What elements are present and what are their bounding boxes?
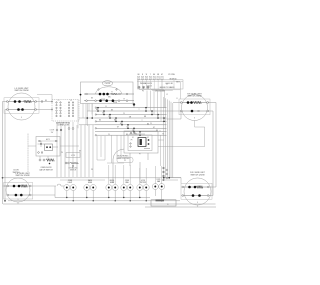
svg-text:W: W: [166, 94, 168, 96]
svg-text:-: -: [65, 110, 66, 112]
svg-text:Y: Y: [141, 120, 142, 122]
svg-text:P8: P8: [91, 169, 93, 171]
svg-text:-: -: [65, 116, 66, 118]
svg-text:BROIL: BROIL: [110, 180, 115, 182]
svg-text:V: V: [126, 127, 127, 129]
svg-text:P6: P6: [70, 100, 72, 102]
svg-text:R: R: [105, 106, 107, 108]
svg-text:CONV: CONV: [125, 180, 129, 182]
svg-text:BU: BU: [99, 120, 101, 122]
svg-text:SWITCH 2350W: SWITCH 2350W: [188, 96, 202, 98]
svg-text:MOTOR: MOTOR: [140, 182, 146, 184]
svg-text:W: W: [123, 99, 125, 101]
svg-text:W: W: [146, 74, 148, 76]
svg-text:SEL: SEL: [108, 96, 111, 98]
svg-text:BK W: BK W: [176, 81, 180, 83]
svg-text:Y: Y: [138, 109, 139, 111]
svg-text:P9: P9: [131, 140, 133, 142]
svg-text:V: V: [159, 130, 160, 132]
svg-text:OVEN: OVEN: [68, 180, 72, 182]
svg-text:S: S: [21, 117, 23, 119]
svg-text:SWITCH 1250W: SWITCH 1250W: [16, 175, 30, 177]
svg-text:BU: BU: [147, 123, 149, 125]
svg-text:SWITCH 1250W: SWITCH 1250W: [191, 174, 205, 176]
svg-text:GY: GY: [161, 74, 163, 76]
svg-text:BK: BK: [96, 109, 98, 111]
svg-text:P7: P7: [139, 153, 141, 155]
svg-text:-: -: [65, 113, 66, 115]
svg-text:S: S: [197, 202, 199, 204]
svg-text:ELEM: ELEM: [110, 182, 115, 184]
svg-text:BK: BK: [79, 151, 81, 153]
svg-text:BR: BR: [144, 116, 147, 118]
svg-text:K1: K1: [132, 137, 134, 139]
svg-text:CLOCK: CLOCK: [105, 83, 111, 85]
svg-text:BU: BU: [114, 120, 116, 122]
svg-text:W: W: [108, 134, 110, 136]
svg-text:-: -: [65, 108, 66, 110]
svg-text:DOOR: DOOR: [50, 130, 55, 132]
svg-text:P2: P2: [124, 160, 126, 162]
svg-text:BK: BK: [138, 74, 140, 76]
svg-text:LATCH SWITCH: LATCH SWITCH: [39, 168, 53, 171]
svg-text:K2: K2: [147, 137, 149, 139]
svg-text:-: -: [65, 102, 66, 104]
svg-text:BAKE: BAKE: [88, 179, 92, 182]
svg-text:ELEM: ELEM: [88, 182, 93, 184]
svg-text:GY: GY: [117, 127, 119, 129]
svg-text:SW: SW: [51, 132, 54, 134]
svg-text:Y: Y: [150, 74, 151, 76]
svg-text:OVEN: OVEN: [101, 99, 105, 101]
svg-text:COOL: COOL: [156, 179, 160, 181]
svg-text:GROUND TO CHASSIS: GROUND TO CHASSIS: [160, 86, 175, 89]
svg-text:R: R: [176, 98, 177, 100]
svg-text:SWITCH: SWITCH: [13, 172, 20, 174]
svg-text:BK: BK: [91, 98, 93, 100]
svg-text:BU: BU: [153, 74, 155, 76]
svg-text:-: -: [65, 105, 66, 107]
svg-text:LIGHT: LIGHT: [68, 182, 73, 184]
svg-text:GY: GY: [153, 127, 155, 129]
svg-text:P1 CONN: P1 CONN: [168, 74, 174, 76]
svg-text:OVEN CONTROL: OVEN CONTROL: [116, 158, 130, 160]
svg-text:DOOR: DOOR: [113, 102, 117, 104]
svg-text:OR: OR: [129, 117, 132, 119]
svg-text:LOCK: LOCK: [141, 180, 145, 182]
svg-text:BK: BK: [126, 134, 128, 136]
svg-text:AUTO: AUTO: [46, 138, 51, 141]
svg-text:ID: ID: [167, 204, 168, 206]
svg-text:BK: BK: [111, 110, 113, 112]
svg-text:S: S: [194, 117, 196, 119]
svg-text:R: R: [142, 74, 143, 76]
svg-text:OR: OR: [157, 74, 159, 76]
svg-text:P3: P3: [142, 91, 144, 93]
svg-text:SWITCH 2350W: SWITCH 2350W: [15, 90, 29, 92]
svg-text:P4: P4: [61, 152, 63, 154]
svg-text:CONNECTOR: CONNECTOR: [57, 125, 69, 127]
svg-text:GY: GY: [120, 123, 122, 125]
svg-text:R: R: [111, 91, 112, 93]
svg-text:BK: BK: [166, 84, 168, 86]
svg-text:P5: P5: [58, 100, 60, 102]
